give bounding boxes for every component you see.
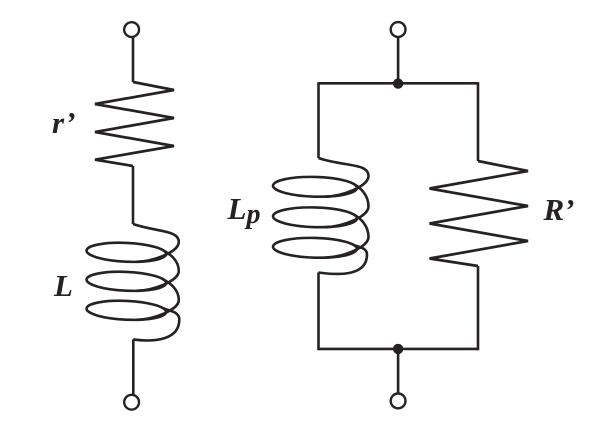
- wire bottom-left: [132, 339, 135, 394]
- inductor Lp spine 4: [318, 245, 367, 274]
- inductor L spine 3: [136, 279, 179, 320]
- inductor Lp spine 3: [326, 214, 369, 258]
- terminal bottom-left: [124, 395, 139, 410]
- label r': [52, 107, 76, 138]
- wire top-right: [397, 37, 400, 83]
- right branch wire upper: [477, 82, 480, 161]
- label L: [54, 270, 73, 301]
- terminal top-left: [124, 22, 139, 37]
- junction bottom: [393, 344, 403, 354]
- inductor L spine 2: [136, 250, 179, 291]
- inductor L turn 2 oval: [86, 270, 166, 292]
- inductor Lp turn 3 oval: [273, 237, 357, 259]
- inductor Lp turn 2 oval: [273, 206, 357, 228]
- terminal top-right: [391, 22, 406, 37]
- left branch wire upper: [317, 82, 320, 158]
- label Lp: [228, 193, 261, 225]
- bottom rail: [319, 348, 479, 351]
- inductor L turn 1 oval: [86, 241, 166, 263]
- left branch wire lower: [317, 273, 320, 351]
- inductor Lp spine 1: [319, 158, 369, 197]
- wire bottom-right: [397, 349, 400, 393]
- resistor R': [430, 161, 529, 266]
- inductor L spine 1: [133, 224, 179, 262]
- wire top-left: [132, 37, 135, 82]
- inductor Lp spine 2: [326, 184, 369, 228]
- inductor L turn 3 oval: [86, 299, 166, 321]
- label R': [544, 194, 575, 225]
- terminal bottom-right: [391, 394, 406, 409]
- inductor L spine 4: [133, 308, 179, 341]
- top rail: [319, 82, 479, 85]
- wire left middle: [132, 166, 135, 224]
- right branch wire lower: [477, 266, 480, 350]
- inductor Lp turn 1 oval: [273, 176, 357, 198]
- resistor r': [95, 82, 174, 166]
- junction top: [393, 78, 403, 88]
